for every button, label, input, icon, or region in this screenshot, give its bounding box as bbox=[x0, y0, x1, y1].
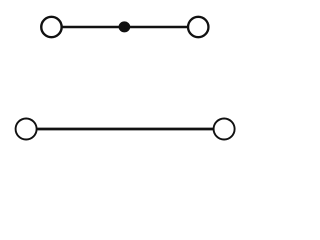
node (center junction dot) bbox=[119, 21, 131, 32]
wire (bottom rail) bbox=[36, 128, 215, 131]
terminal 2.2 (bottom-right clamp circle) bbox=[214, 119, 235, 140]
terminal 2.1 (bottom-left clamp circle) bbox=[16, 119, 37, 140]
wire (top-left segment) bbox=[62, 26, 124, 29]
terminal 1.2 (top-right clamp circle) bbox=[188, 17, 208, 37]
terminal 1.1 (top-left clamp circle) bbox=[41, 17, 61, 37]
wire (top-right segment) bbox=[124, 26, 188, 29]
